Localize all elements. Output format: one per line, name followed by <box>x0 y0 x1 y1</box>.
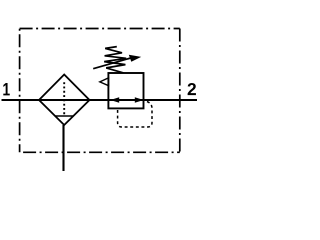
filter sump chord <box>55 115 74 117</box>
enclosure border (dash-dot assembly frame) <box>20 29 180 153</box>
wire: main flow line from port 1 to port 2 <box>2 99 198 101</box>
pilot line (dashed feedback loop) <box>118 102 152 128</box>
enclosure border top (dash-dot) <box>20 28 180 30</box>
regulator U1 body (square) <box>108 73 143 108</box>
adjustment arrow head <box>129 55 141 62</box>
relief vent triangle <box>100 78 109 86</box>
port label 1 <box>3 83 9 95</box>
enclosure border left (dash-dot) <box>19 29 21 153</box>
enclosure border bottom (dash-dot) <box>20 151 180 153</box>
filter F1 (diamond body) <box>39 75 90 126</box>
flow arrowhead left <box>110 97 119 103</box>
enclosure border right (dash-dot) <box>179 29 181 153</box>
flow arrowhead right <box>135 97 144 103</box>
spring (zigzag, adjustable) <box>104 47 126 73</box>
port label 2 <box>188 83 196 95</box>
drain line <box>62 125 64 171</box>
adjustment arrow shaft <box>93 58 132 69</box>
filter element (dotted centre line) <box>63 82 65 115</box>
